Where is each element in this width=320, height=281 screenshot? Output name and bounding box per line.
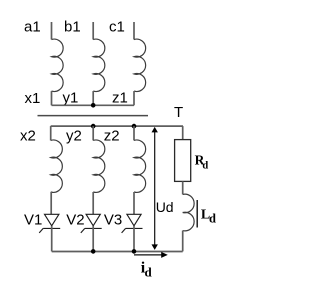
winding primary c1-z1 bbox=[134, 39, 146, 91]
wire: primary phase a top lead bbox=[51, 22, 53, 40]
wire: secondary phase b top lead bbox=[92, 126, 94, 140]
svg-text:z1: z1 bbox=[112, 90, 128, 107]
junction primary neutral at phase b bbox=[91, 103, 96, 108]
Ud measurement line bbox=[154, 131, 156, 245]
junction secondary bus at phase c bbox=[132, 124, 137, 129]
wire: secondary phase a top lead bbox=[50, 126, 52, 140]
thyristor V2 bbox=[81, 214, 102, 233]
svg-text:Rd: Rd bbox=[195, 153, 209, 172]
svg-text:y2: y2 bbox=[66, 127, 82, 144]
svg-text:z2: z2 bbox=[104, 127, 120, 144]
wire: secondary phase a to thyristor V1 bbox=[50, 192, 52, 215]
svg-text:V2: V2 bbox=[66, 211, 84, 228]
svg-text:V1: V1 bbox=[24, 211, 42, 228]
svg-text:a1: a1 bbox=[24, 19, 41, 36]
svg-text:V3: V3 bbox=[104, 211, 122, 228]
svg-text:T: T bbox=[174, 104, 183, 121]
wire: secondary phase b to thyristor V2 bbox=[92, 192, 94, 215]
Ud arrow up bbox=[152, 127, 158, 132]
svg-text:x2: x2 bbox=[20, 127, 36, 144]
thyristor V3 bbox=[122, 214, 143, 233]
svg-text:Ld: Ld bbox=[201, 207, 216, 225]
thyristor V1 bbox=[39, 214, 60, 233]
inductor Ld core bar bbox=[196, 200, 198, 228]
wire: cathode bus (bottom) bbox=[52, 251, 183, 253]
winding secondary x2 bbox=[51, 140, 63, 192]
winding primary b1-y1 bbox=[93, 39, 105, 91]
wire: primary neutral bus bbox=[52, 104, 135, 106]
wire: primary phase a bottom lead bbox=[51, 91, 53, 105]
junction cathode bus at V2 bbox=[91, 249, 96, 254]
wire: secondary star bus bbox=[51, 125, 183, 127]
svg-text:id: id bbox=[141, 260, 153, 280]
current id arrow bbox=[134, 254, 162, 256]
wire: V1 cathode to bus bbox=[51, 226, 53, 251]
wire: secondary phase c to thyristor V3 bbox=[133, 192, 135, 215]
wire: V3 cathode to bus bbox=[133, 226, 135, 251]
wire: Rd to Ld bbox=[182, 181, 184, 194]
wire: load branch top (bus to Rd) bbox=[182, 126, 184, 140]
wire: primary phase b top lead bbox=[92, 22, 94, 40]
wire: primary phase c top lead bbox=[133, 22, 135, 40]
resistor Rd bbox=[175, 140, 191, 182]
svg-text:x1: x1 bbox=[25, 90, 41, 107]
wire: primary phase c bottom lead bbox=[133, 91, 135, 105]
wire: V2 cathode to bus bbox=[92, 226, 94, 251]
svg-text:b1: b1 bbox=[64, 19, 81, 36]
Ud arrow down bbox=[152, 244, 158, 250]
svg-text:y1: y1 bbox=[63, 90, 79, 107]
svg-text:Ud: Ud bbox=[156, 199, 174, 215]
winding secondary z2 bbox=[134, 140, 146, 192]
winding primary a1-x1 bbox=[52, 39, 64, 91]
wire: secondary phase c top lead bbox=[133, 126, 135, 140]
wire: Ld to bottom bus bbox=[182, 231, 184, 252]
transformer T separator line bbox=[38, 115, 149, 117]
svg-text:c1: c1 bbox=[109, 19, 125, 36]
junction cathode bus at V3 bbox=[132, 249, 137, 254]
winding secondary y2 bbox=[93, 140, 105, 192]
wire: primary phase b bottom lead bbox=[92, 91, 94, 105]
inductor Ld bbox=[183, 194, 194, 231]
junction secondary bus at phase b bbox=[91, 124, 96, 129]
